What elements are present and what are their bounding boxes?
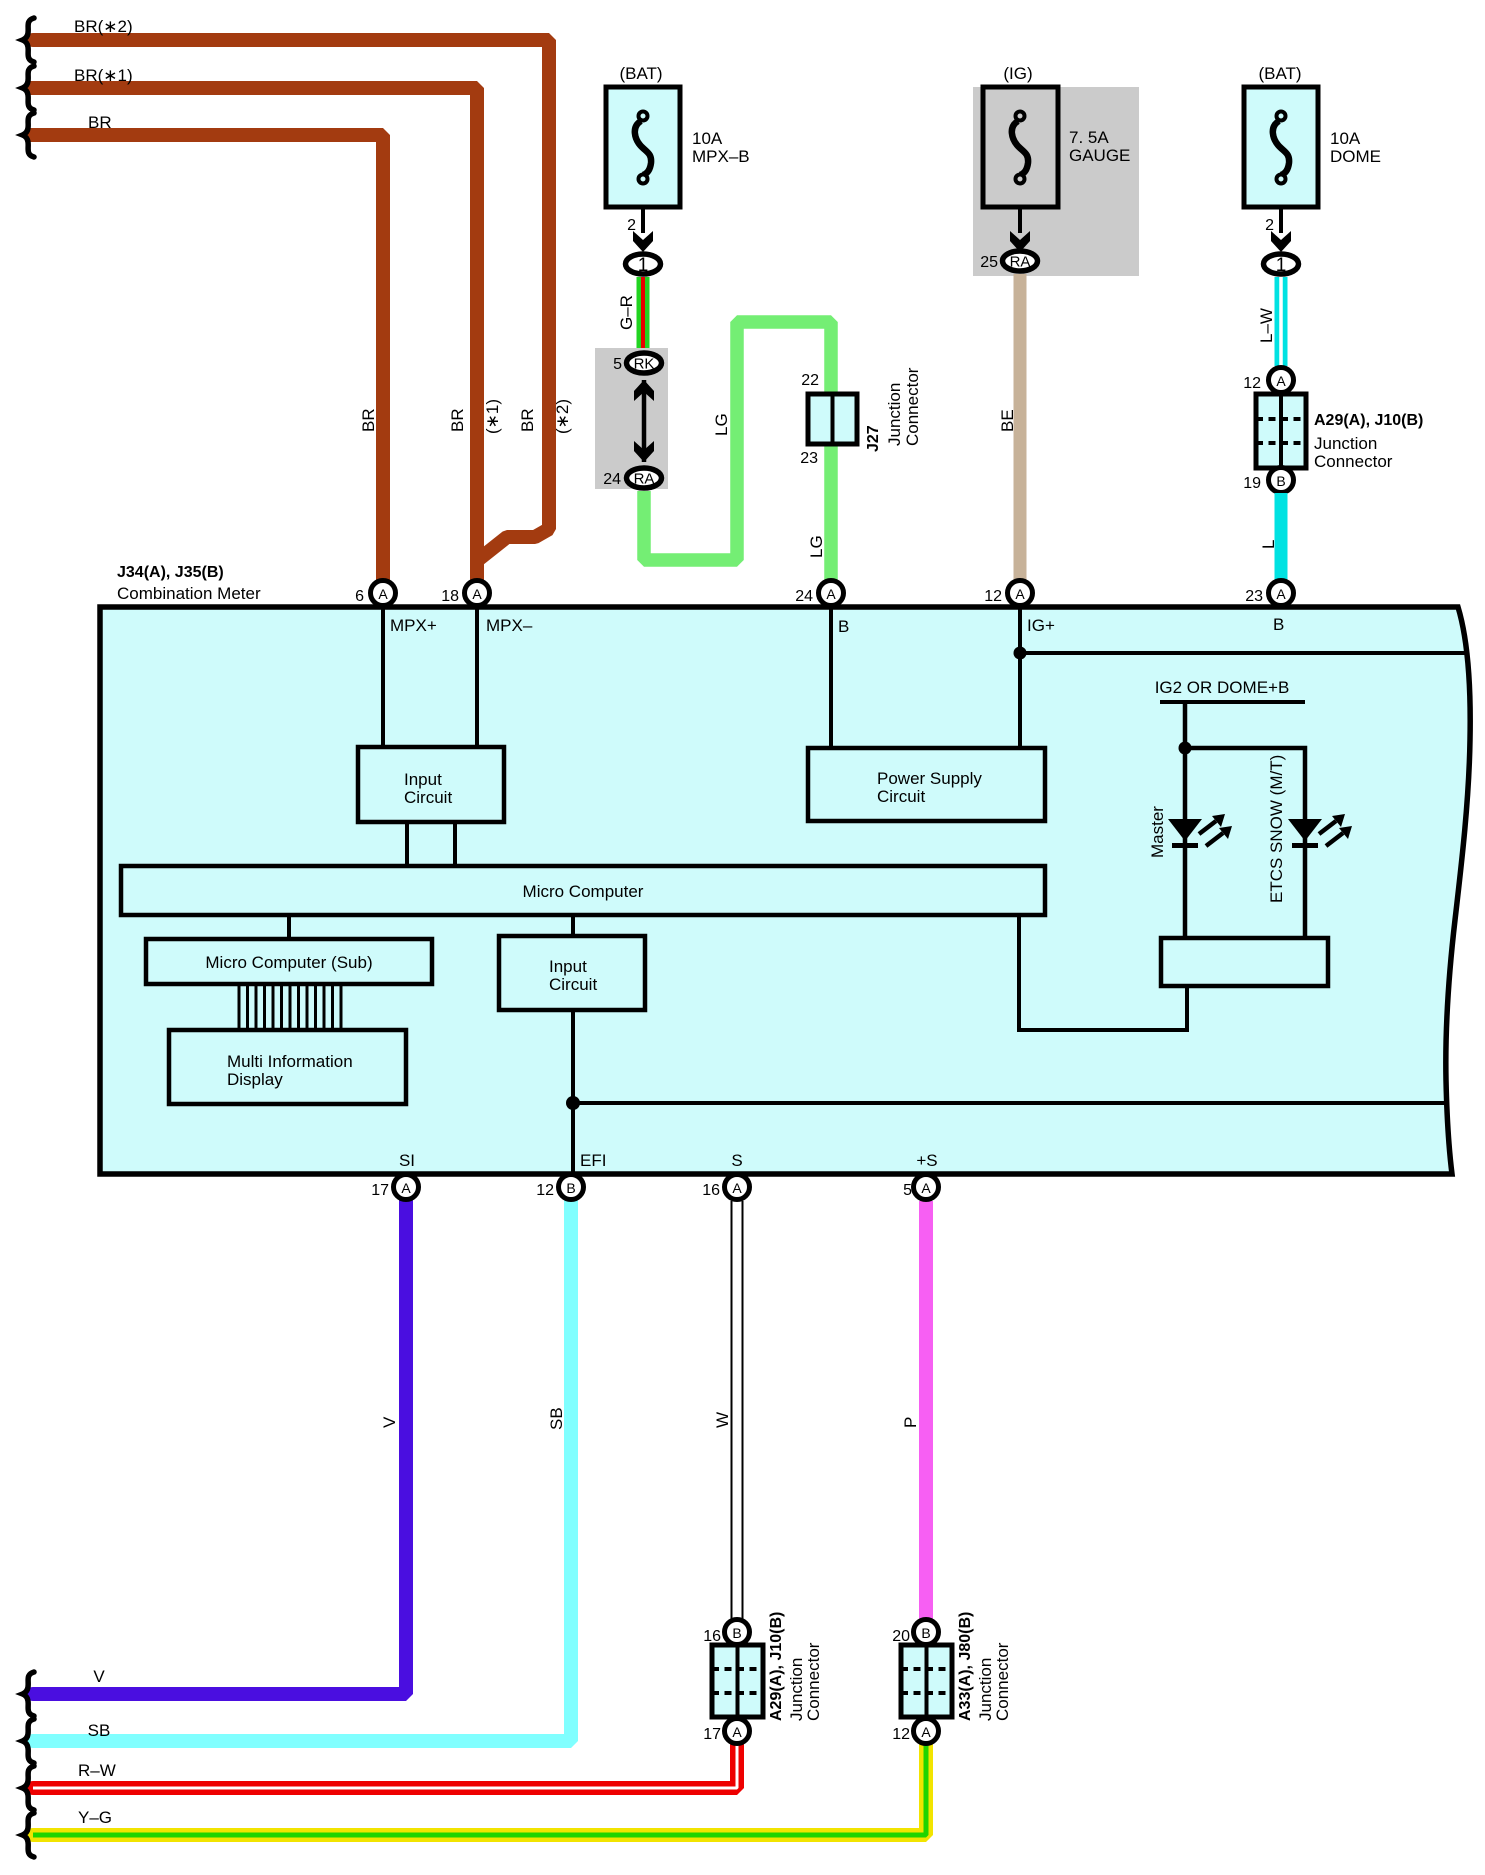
svg-text:Multi Information: Multi Information (227, 1052, 353, 1071)
svg-text:G–R: G–R (617, 295, 636, 330)
svg-text:B: B (732, 1625, 741, 1641)
svg-text:LG: LG (807, 535, 826, 558)
svg-text:6: 6 (355, 588, 364, 605)
svg-text:BR: BR (359, 408, 378, 432)
power supply circuit box (808, 748, 1045, 821)
LED resistor box (1161, 938, 1328, 986)
fuse GAUGE box (983, 87, 1058, 207)
svg-text:Connector: Connector (804, 1642, 823, 1721)
svg-text:Micro Computer: Micro Computer (523, 882, 644, 901)
arrow into connector 1 (633, 231, 653, 252)
svg-text:SI: SI (399, 1151, 415, 1170)
connector oval RA pin 25 (1003, 251, 1038, 271)
wire LG zigzag (644, 322, 831, 588)
svg-text:MPX+: MPX+ (390, 616, 437, 635)
svg-text:19: 19 (1243, 475, 1261, 492)
svg-text:7. 5A: 7. 5A (1069, 128, 1109, 147)
wire BR(*1) (30, 88, 477, 585)
svg-text:ETCS SNOW (M/T): ETCS SNOW (M/T) (1267, 755, 1286, 903)
pin 12 A junction connector 2 (914, 1719, 939, 1744)
svg-text:GAUGE: GAUGE (1069, 146, 1130, 165)
wire micro computer to sub (287, 915, 291, 939)
svg-text:16: 16 (702, 1182, 720, 1199)
svg-text:(∗2): (∗2) (553, 399, 572, 434)
fuse MPX-B element symbol (635, 112, 651, 184)
wire V violet (33, 1201, 406, 1694)
svg-text:12: 12 (1243, 375, 1261, 392)
svg-text:W: W (713, 1412, 732, 1428)
connector oval 1 (DOME) (1264, 254, 1299, 274)
wires input circuit to micro computer (405, 822, 409, 866)
wire fuse GAUGE down (1018, 207, 1022, 233)
svg-text:P: P (901, 1417, 920, 1428)
svg-text:Junction: Junction (885, 383, 904, 446)
continuation brace SB (23, 1719, 35, 1763)
branch wire to second LED (1185, 748, 1305, 938)
svg-text:Input: Input (549, 957, 587, 976)
svg-text:A33(A), J80(B): A33(A), J80(B) (957, 1612, 974, 1721)
svg-text:B: B (1276, 473, 1285, 489)
pin 12 A (1008, 581, 1033, 606)
svg-text:Circuit: Circuit (404, 788, 452, 807)
junction connector A29(A), J10(B) bottom box (712, 1645, 763, 1717)
svg-text:16: 16 (703, 1628, 721, 1645)
pin 16 A bottom (725, 1175, 750, 1200)
svg-text:A: A (921, 1724, 931, 1740)
svg-text:2: 2 (1265, 217, 1274, 234)
svg-text:B: B (1273, 615, 1284, 634)
svg-text:Combination Meter: Combination Meter (117, 584, 261, 603)
svg-text:23: 23 (800, 450, 818, 467)
wire BE tan (1014, 274, 1027, 588)
IG+ node horizontal wire (1020, 651, 1469, 655)
LED ETCS SNOW (1288, 814, 1352, 846)
wire node bar down to LEDs (1183, 702, 1188, 938)
continuation brace BR(*2) (23, 18, 35, 62)
pin stub 18A to input circuit (475, 600, 479, 747)
svg-text:Connector: Connector (993, 1642, 1012, 1721)
wire BR(*2) top horizontal/vertical brown (33, 40, 549, 560)
svg-text:20: 20 (892, 1628, 910, 1645)
micro computer bar (121, 866, 1045, 915)
svg-text:5: 5 (613, 356, 622, 373)
svg-text:A: A (732, 1180, 742, 1196)
svg-text:10A: 10A (692, 129, 723, 148)
svg-text:(IG): (IG) (1003, 64, 1032, 83)
pin stub 12A to power supply (1018, 600, 1022, 748)
svg-text:Display: Display (227, 1070, 283, 1089)
svg-text:Power Supply: Power Supply (877, 769, 982, 788)
svg-text:10A: 10A (1330, 129, 1361, 148)
wire resistor box to micro computer (1019, 915, 1187, 1030)
connector oval RK pin 5 (627, 353, 662, 373)
svg-text:5: 5 (903, 1182, 912, 1199)
pin 17 A bottom (394, 1175, 419, 1200)
svg-text:(∗1): (∗1) (483, 399, 502, 434)
node bar IG2 OR DOME+B (1160, 700, 1305, 704)
svg-text:Micro Computer (Sub): Micro Computer (Sub) (205, 953, 372, 972)
wire input circuit 2 to EFI pin (571, 1010, 575, 1174)
fuse DOME element symbol (1273, 112, 1289, 184)
svg-text:RA: RA (634, 471, 655, 488)
pin 17 A junction connector (725, 1719, 750, 1744)
svg-text:A: A (401, 1180, 411, 1196)
svg-text:25: 25 (980, 254, 998, 271)
wire micro computer to input circuit 2 (571, 915, 575, 936)
svg-text:L: L (1259, 540, 1278, 549)
continuation brace Y-G (23, 1813, 35, 1857)
fuse GAUGE element symbol (1012, 112, 1028, 184)
svg-text:1: 1 (638, 255, 649, 276)
pin 12 B bottom (559, 1175, 584, 1200)
continuation brace BR (23, 113, 35, 157)
wire L-W cyan with white stripe (1275, 277, 1288, 366)
input circuit box 2 (499, 936, 645, 1010)
svg-text:24: 24 (603, 471, 621, 488)
svg-text:17: 17 (703, 1726, 721, 1743)
svg-text:A: A (472, 586, 482, 602)
svg-text:2: 2 (627, 217, 636, 234)
svg-text:A: A (1276, 586, 1286, 602)
svg-text:Circuit: Circuit (549, 975, 597, 994)
svg-text:IG2 OR DOME+B: IG2 OR DOME+B (1155, 678, 1290, 697)
pin 16 B junction connector (725, 1620, 750, 1645)
svg-text:23: 23 (1245, 588, 1263, 605)
wire fuse DOME down (1279, 207, 1283, 233)
svg-text:Input: Input (404, 770, 442, 789)
gauge fuse gray background (973, 87, 1139, 276)
svg-text:B: B (921, 1625, 930, 1641)
svg-text:22: 22 (801, 372, 819, 389)
svg-text:+S: +S (916, 1151, 937, 1170)
shield gray box RK/RA (595, 348, 668, 489)
svg-text:1: 1 (1276, 255, 1287, 276)
EFI node horizontal wire (573, 1101, 1449, 1105)
continuation brace R-W (23, 1766, 35, 1810)
wire L cyan (1275, 493, 1288, 588)
wire P pink (919, 1201, 933, 1619)
svg-text:L–W: L–W (1257, 308, 1276, 343)
svg-text:A: A (1276, 373, 1286, 389)
svg-text:Connector: Connector (903, 367, 922, 446)
svg-text:LG: LG (712, 413, 731, 436)
wire Y-G yellow with green stripe (33, 1745, 926, 1835)
svg-text:Master: Master (1148, 806, 1167, 858)
wire fuse MPX-B to connector 1 (641, 207, 645, 233)
svg-text:(BAT): (BAT) (1258, 64, 1301, 83)
continuation brace BR(*1) (23, 66, 35, 110)
connector oval RA pin 24 (627, 468, 662, 488)
continuation brace V (23, 1672, 35, 1716)
svg-text:12: 12 (892, 1726, 910, 1743)
svg-text:18: 18 (441, 588, 459, 605)
ribbon lines sub to display (239, 984, 341, 1030)
svg-text:Connector: Connector (1314, 452, 1393, 471)
fuse MPX-B box (606, 87, 680, 207)
pin 23 A (1269, 581, 1294, 606)
pin 18 A (465, 581, 490, 606)
svg-text:DOME: DOME (1330, 147, 1381, 166)
svg-text:V: V (380, 1416, 399, 1428)
svg-text:S: S (731, 1151, 742, 1170)
EFI junction dot (566, 1096, 580, 1110)
svg-text:IG+: IG+ (1027, 616, 1055, 635)
wire BR (30, 135, 383, 585)
pin 20 B junction connector 2 (914, 1620, 939, 1645)
svg-text:A: A (826, 586, 836, 602)
svg-text:MPX–: MPX– (486, 616, 533, 635)
svg-text:BR: BR (88, 113, 112, 132)
wire G-R green with red stripe (637, 277, 650, 352)
svg-text:BR: BR (518, 408, 537, 432)
svg-text:A: A (921, 1180, 931, 1196)
IG+ junction dot (1014, 647, 1027, 660)
connector oval 1 (MPX-B) (626, 254, 661, 274)
svg-text:V: V (93, 1667, 105, 1686)
svg-text:SB: SB (547, 1407, 566, 1430)
junction connector J27 box (808, 394, 857, 444)
multi information display box (169, 1030, 406, 1104)
svg-text:A: A (732, 1724, 742, 1740)
wire SB pale cyan (33, 1201, 571, 1741)
pin stub 24A to power supply (829, 600, 833, 748)
svg-text:BR(∗2): BR(∗2) (74, 17, 133, 36)
svg-text:B: B (566, 1180, 575, 1196)
pin 6 A (371, 581, 396, 606)
double arrow RK to RA (642, 380, 647, 462)
svg-text:Circuit: Circuit (877, 787, 925, 806)
pin 19 B circle (1269, 468, 1294, 493)
arrow into RA (1010, 231, 1030, 252)
svg-text:A: A (378, 586, 388, 602)
svg-text:J34(A), J35(B): J34(A), J35(B) (117, 564, 224, 581)
wire R-W red with white stripe (33, 1745, 737, 1788)
svg-text:12: 12 (536, 1182, 554, 1199)
pin 5 A bottom (914, 1175, 939, 1200)
wire W white (731, 1201, 744, 1619)
svg-text:A29(A), J10(B): A29(A), J10(B) (768, 1612, 785, 1721)
input circuit box 1 (358, 747, 504, 822)
pin stub 6A to input circuit (381, 600, 385, 747)
branch dot (1179, 742, 1192, 755)
svg-text:BR: BR (448, 408, 467, 432)
svg-text:(BAT): (BAT) (619, 64, 662, 83)
svg-text:SB: SB (88, 1721, 111, 1740)
junction connector A33(A), J80(B) box (901, 1645, 952, 1717)
svg-text:Y–G: Y–G (78, 1808, 112, 1827)
combination meter box (100, 607, 1470, 1174)
svg-text:12: 12 (984, 588, 1002, 605)
pin 12 A circle junction connector top (1269, 368, 1294, 393)
junction connector A29(A), J10(B) box (1256, 394, 1306, 468)
svg-text:Junction: Junction (1314, 434, 1377, 453)
svg-text:BE: BE (998, 409, 1017, 432)
svg-text:J27: J27 (865, 425, 882, 452)
svg-text:A: A (1015, 586, 1025, 602)
svg-text:RK: RK (634, 356, 655, 373)
arrow into connector 1 (1271, 231, 1291, 252)
LED Master (1168, 814, 1232, 846)
svg-text:RA: RA (1010, 254, 1031, 271)
svg-text:BR(∗1): BR(∗1) (74, 66, 133, 85)
svg-text:24: 24 (795, 588, 813, 605)
svg-text:B: B (838, 617, 849, 636)
svg-text:A29(A), J10(B): A29(A), J10(B) (1314, 412, 1423, 429)
svg-text:EFI: EFI (580, 1151, 606, 1170)
svg-text:R–W: R–W (78, 1761, 116, 1780)
svg-text:MPX–B: MPX–B (692, 147, 750, 166)
micro computer sub box (146, 939, 432, 984)
pin 24 A (819, 581, 844, 606)
svg-text:17: 17 (371, 1182, 389, 1199)
fuse DOME box (1244, 87, 1318, 207)
